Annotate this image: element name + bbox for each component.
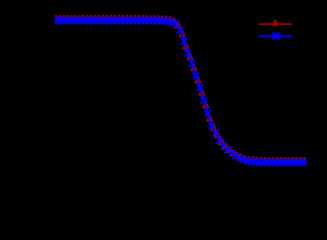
red series line (55, 20, 306, 162)
legend red entry (259, 23, 292, 25)
red series markers (52, 15, 60, 22)
legend blue entry (259, 35, 292, 37)
blue series line (55, 21, 306, 163)
blue series markers (51, 17, 57, 24)
